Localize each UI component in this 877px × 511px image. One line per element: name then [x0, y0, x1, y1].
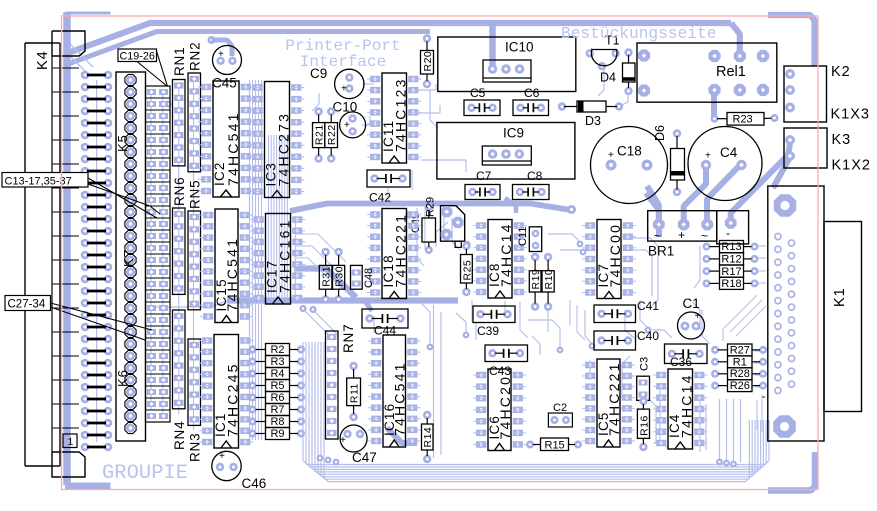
svg-text:C41: C41: [637, 299, 659, 313]
IC18 74HC221: [367, 209, 421, 299]
svg-text:R16: R16: [638, 415, 650, 436]
resistor R14: [422, 411, 435, 463]
svg-text:C44: C44: [374, 324, 396, 338]
capacitor C9: [310, 66, 364, 99]
capacitor C18: [591, 127, 668, 204]
svg-text:RN6: RN6: [172, 177, 187, 206]
capacitor C7: [465, 169, 500, 200]
capacitor grid C13-C37 cells: [146, 86, 171, 422]
svg-text:GROUPIE: GROUPIE: [102, 462, 188, 485]
IC4 74HC14: [653, 369, 707, 449]
connector K4 pin-1 box: [63, 434, 77, 448]
svg-text:R28: R28: [730, 368, 750, 380]
capacitor C10: [333, 100, 366, 138]
svg-text:R10: R10: [543, 269, 555, 290]
svg-text:R14: R14: [422, 427, 434, 448]
IC16 74HC541: [368, 335, 420, 447]
bridge rectifier BR1: [648, 211, 749, 259]
svg-text:C47: C47: [352, 450, 377, 465]
svg-text:74HC541: 74HC541: [224, 237, 240, 312]
wire data bus through IC17: [269, 135, 288, 298]
svg-text:+: +: [219, 451, 225, 462]
capacitor C43: [485, 345, 528, 378]
svg-text:74HC14: 74HC14: [679, 373, 695, 438]
svg-text:+: +: [218, 49, 224, 60]
transistor T1: [586, 34, 620, 71]
resistor R29: [422, 197, 437, 254]
svg-text:R13: R13: [721, 241, 741, 253]
capacitor C3: [637, 357, 651, 400]
svg-text:RN1: RN1: [172, 47, 187, 76]
wire trace C stub: [505, 198, 516, 213]
capacitor C44: [362, 309, 408, 338]
svg-text:74HC00: 74HC00: [607, 223, 623, 288]
svg-text:D6: D6: [653, 125, 667, 141]
svg-text:C48: C48: [363, 268, 375, 288]
IC8 74HC14: [473, 220, 527, 299]
resistor R20: [421, 34, 435, 88]
svg-text:RN4: RN4: [172, 421, 187, 450]
svg-text:R19: R19: [530, 269, 542, 290]
svg-text:C45: C45: [212, 76, 237, 91]
svg-text:+: +: [608, 150, 614, 161]
svg-text:C5: C5: [470, 86, 486, 100]
svg-text:R5: R5: [270, 380, 284, 392]
capacitor C45: [212, 46, 242, 91]
connector K4 pins: [81, 71, 113, 452]
resistor network RN2: [188, 42, 203, 172]
resistor network RN3: [188, 339, 203, 462]
svg-text:+: +: [678, 228, 685, 242]
svg-text:IC10: IC10: [505, 40, 534, 55]
connector K4 shell: [25, 31, 85, 477]
svg-text:IC9: IC9: [503, 126, 524, 141]
svg-text:74HC20: 74HC20: [497, 375, 513, 440]
relay Rel1: [637, 43, 777, 102]
wire IC17 fan diagonals: [295, 234, 346, 290]
svg-text:74HC221: 74HC221: [606, 361, 622, 436]
svg-text:R22: R22: [326, 124, 338, 145]
svg-text:K1: K1: [832, 287, 848, 307]
svg-text:R23: R23: [733, 114, 753, 126]
capacitor C4: [688, 127, 762, 201]
resistors R27 R1 R28 R26 stack: [711, 344, 767, 392]
svg-text:74HC161: 74HC161: [277, 218, 293, 293]
connector K6 label: [115, 369, 130, 387]
svg-text:C11: C11: [517, 227, 529, 246]
diode D6: [653, 125, 685, 196]
IC11 74HC123: [367, 73, 421, 163]
svg-text:R18: R18: [721, 278, 741, 290]
capacitor C1: [678, 296, 705, 339]
wire IC16 bottom trace: [387, 428, 417, 443]
svg-text:C3: C3: [639, 357, 651, 371]
wire relay trace: [711, 90, 717, 117]
svg-text:+: +: [340, 435, 346, 446]
wire top right trace to K2: [768, 15, 815, 66]
resistor R10: [542, 253, 555, 311]
svg-text:~: ~: [701, 229, 708, 243]
svg-text:K7: K7: [121, 249, 136, 267]
IC5 74HC221: [582, 359, 635, 447]
svg-text:+: +: [705, 151, 711, 162]
IC10 module: [438, 37, 576, 92]
svg-text:C46: C46: [242, 476, 267, 491]
resistor R23: [711, 113, 779, 126]
svg-text:R26: R26: [730, 380, 750, 392]
capacitor C5: [464, 86, 500, 116]
connector K4 label: [35, 50, 51, 70]
svg-text:K3: K3: [832, 132, 852, 148]
wire middle vertical thin traces: [417, 205, 585, 458]
title Printer-Port Interface: [285, 37, 400, 71]
wire data bus between IC2 IC3: [250, 80, 262, 440]
svg-text:74HC123: 74HC123: [393, 77, 409, 152]
resistor R15: [526, 438, 582, 451]
svg-text:C10: C10: [333, 100, 358, 115]
connector K3 labels: [832, 132, 871, 174]
IC9 module: [437, 123, 575, 180]
resistor network RN1: [172, 47, 187, 166]
svg-text:C40: C40: [637, 329, 659, 343]
svg-text:-: -: [726, 226, 730, 240]
svg-text:+: +: [341, 84, 347, 95]
svg-text:C1: C1: [683, 296, 700, 311]
wire via pads: [164, 100, 651, 465]
wire misc thin traces right side: [312, 70, 700, 444]
connector K2 labels: [831, 64, 870, 123]
svg-text:R8: R8: [270, 416, 284, 428]
resistors R13 R12 R17 R18 stack: [703, 241, 759, 291]
wire capacitor column bus: [151, 90, 163, 418]
capacitor C48: [351, 265, 376, 289]
svg-text:Interface: Interface: [300, 53, 386, 71]
resistors R2-R9 stack: [249, 344, 306, 441]
svg-text:R1: R1: [733, 356, 747, 368]
svg-text:C42: C42: [369, 191, 391, 205]
wire K4 pad bus: [96, 80, 98, 442]
resistor R16: [637, 397, 650, 451]
svg-text:~: ~: [654, 229, 661, 243]
wire IC17 right bus: [294, 218, 296, 300]
svg-text:Rel1: Rel1: [716, 64, 746, 80]
connector K7 label: [121, 249, 136, 267]
title Bestückungsseite: [561, 25, 716, 43]
resistor R30: [333, 248, 346, 304]
connector K5 label: [115, 134, 130, 152]
svg-text:R27: R27: [730, 344, 750, 356]
svg-text:K1X3: K1X3: [831, 107, 870, 123]
svg-text:R9: R9: [270, 428, 284, 440]
svg-text:RN2: RN2: [188, 42, 203, 71]
capacitor C8: [513, 169, 550, 200]
capacitor C2: [548, 402, 572, 427]
connector K3: [784, 128, 827, 168]
svg-text:RN3: RN3: [188, 433, 203, 462]
svg-text:+: +: [695, 311, 701, 322]
svg-text:C4: C4: [720, 145, 738, 160]
svg-text:RN7: RN7: [341, 324, 356, 353]
svg-text:R11: R11: [349, 383, 361, 403]
svg-text:K2: K2: [831, 64, 851, 80]
svg-text:K6: K6: [115, 369, 130, 387]
label box C13-17,35-37: [2, 173, 160, 219]
svg-text:R2: R2: [270, 344, 284, 356]
svg-text:+: +: [344, 120, 350, 131]
resistor network RN6: [172, 177, 187, 295]
wire BR1 riser 3: [707, 164, 741, 222]
transistor Q1 block: [441, 206, 471, 249]
capacitor C36: [665, 344, 708, 369]
svg-text:R12: R12: [721, 254, 741, 266]
svg-text:R21: R21: [314, 124, 326, 145]
svg-text:-: -: [762, 391, 766, 403]
svg-text:R6: R6: [270, 392, 284, 404]
wire BR1 riser 1: [647, 186, 659, 224]
wire BR1 riser 4: [731, 144, 790, 222]
resistor R21: [313, 107, 326, 162]
svg-text:74HC541: 74HC541: [392, 361, 408, 436]
wire middle horizontal trace B: [294, 269, 356, 298]
wire middle horizontal trace A: [290, 204, 576, 215]
svg-text:C8: C8: [527, 169, 543, 183]
wire C45 feed trace: [208, 36, 233, 56]
wire left border power trace: [65, 12, 111, 486]
IC7 74HC00: [582, 220, 636, 299]
IC2 74HC541: [198, 81, 254, 197]
wire top left diagonals: [70, 44, 93, 74]
title GROUPIE: [102, 462, 188, 485]
wire bottom right trace: [768, 452, 815, 491]
svg-text:R30: R30: [334, 266, 346, 287]
IC15 74HC541: [200, 209, 253, 323]
wire RN bus lines: [179, 82, 194, 430]
svg-text:C39: C39: [477, 324, 499, 338]
wire K1 fan diagonals: [702, 295, 766, 432]
IC1 74HC245: [199, 335, 253, 449]
resistor R11: [347, 362, 361, 421]
svg-text:R31: R31: [321, 266, 333, 287]
svg-text:R17: R17: [721, 266, 741, 278]
diode D3: [558, 101, 623, 128]
svg-text:74HC273: 74HC273: [276, 112, 292, 187]
label box C27-34: [5, 296, 152, 341]
wire misc thin traces middle: [374, 84, 766, 452]
wire long horizontal trace C: [149, 301, 458, 312]
resistor network RN7: [326, 324, 357, 439]
wire IC10 feed trace: [489, 26, 496, 66]
svg-text:Bestückungsseite: Bestückungsseite: [561, 25, 716, 43]
capacitor C46: [212, 451, 266, 491]
svg-text:74HC541: 74HC541: [225, 111, 241, 186]
svg-text:R29: R29: [425, 197, 437, 217]
svg-text:D4: D4: [600, 71, 616, 85]
IC6 74HC20: [473, 369, 526, 451]
wire top thick power trace: [68, 23, 740, 54]
svg-text:K4: K4: [35, 50, 51, 70]
IC17 74HC161: [251, 214, 306, 305]
svg-text:C19-26: C19-26: [120, 50, 155, 62]
svg-text:BR1: BR1: [648, 244, 674, 259]
resistor R31: [319, 248, 332, 304]
diode D4: [600, 48, 635, 95]
svg-text:C43: C43: [489, 364, 511, 378]
wire BR1 riser 2: [684, 168, 706, 224]
svg-text:74HC221: 74HC221: [393, 213, 409, 288]
wire C18 riser: [646, 193, 659, 237]
capacitor C40: [594, 329, 659, 350]
svg-text:R25: R25: [461, 260, 473, 281]
capacitor C6: [513, 86, 549, 116]
resistor R22: [325, 107, 338, 162]
wire trace C branch diagonals: [299, 305, 338, 336]
connector K1: [762, 186, 862, 441]
svg-text:C36: C36: [670, 355, 692, 369]
svg-text:C6: C6: [524, 86, 540, 100]
wire top thin trace: [68, 32, 430, 65]
svg-text:1: 1: [68, 436, 74, 448]
svg-text:R15: R15: [545, 439, 565, 451]
svg-text:C27-34: C27-34: [8, 299, 46, 311]
capacitor C42: [367, 170, 410, 205]
svg-text:R20: R20: [422, 51, 434, 72]
resistor network RN5: [188, 180, 203, 310]
svg-text:R7: R7: [270, 404, 284, 416]
capacitor C39: [473, 306, 515, 338]
wire bottom bundle: [303, 342, 769, 482]
resistor network RN4: [172, 310, 187, 450]
svg-text:R4: R4: [270, 368, 284, 380]
svg-text:74HC14: 74HC14: [498, 222, 514, 287]
connector K2: [784, 66, 827, 122]
svg-text:C7: C7: [476, 169, 492, 183]
svg-text:R3: R3: [270, 356, 284, 368]
label box C19-26: [118, 49, 168, 87]
svg-text:C18: C18: [617, 144, 642, 159]
svg-text:C2: C2: [553, 402, 567, 414]
connector K5/K7/K6 socket strip: [116, 72, 146, 441]
capacitor C47: [340, 425, 377, 465]
svg-text:RN5: RN5: [188, 180, 203, 209]
svg-text:D3: D3: [585, 114, 601, 128]
resistor R25: [461, 242, 474, 296]
IC3 74HC273: [250, 82, 305, 198]
capacitor C49 label: [410, 213, 422, 233]
svg-text:K5: K5: [115, 134, 130, 152]
wire right bundle to resistors: [716, 399, 740, 467]
svg-text:74HC245: 74HC245: [225, 362, 241, 437]
capacitor C41: [594, 299, 659, 323]
resistor R19: [529, 253, 542, 311]
svg-text:K1X2: K1X2: [832, 158, 871, 174]
capacitor C11: [517, 227, 542, 252]
